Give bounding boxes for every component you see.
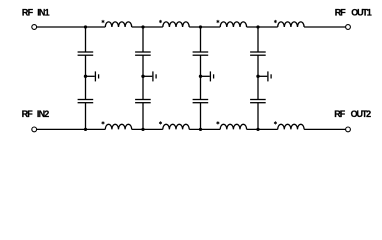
wire C1 to C2 through node M1 xyxy=(85,55,87,99)
wire L1 to node B xyxy=(132,26,163,28)
wire C5 to C6 through node M3 xyxy=(200,55,202,99)
wire node M3 to ground xyxy=(201,75,210,77)
wire C8 to node H xyxy=(257,103,259,130)
ground symbol G3 xyxy=(210,71,213,81)
node D junction dot xyxy=(256,25,259,28)
capacitor C2 xyxy=(78,100,94,103)
wire P1 to node A xyxy=(37,26,106,28)
wire L6 to node G xyxy=(189,128,220,130)
wire L3 to node D xyxy=(247,26,278,28)
phasing dot asterisk L2 xyxy=(159,20,162,23)
capacitor C1 xyxy=(78,52,94,55)
wire L7 to node H xyxy=(247,128,278,130)
port terminal P2 (RF IN2) xyxy=(32,127,37,132)
node M1 junction dot xyxy=(84,75,87,78)
node M4 junction dot xyxy=(256,75,259,78)
wire L8 to port P4 xyxy=(304,128,346,130)
capacitor C8 xyxy=(250,100,266,103)
node C junction dot xyxy=(199,25,202,28)
wire L5 to node F xyxy=(132,128,163,130)
phasing dot asterisk L5 xyxy=(102,121,105,124)
inductor L6 xyxy=(163,124,189,129)
wire node C to capacitor C5 xyxy=(200,27,202,52)
capacitor C4 xyxy=(135,100,151,103)
capacitor C6 xyxy=(193,100,209,103)
node A junction dot xyxy=(84,25,87,28)
wire node M4 to ground xyxy=(258,75,267,77)
node M3 junction dot xyxy=(199,75,202,78)
port terminal P1 (RF IN1) xyxy=(32,25,37,30)
wire C2 to node E xyxy=(85,103,87,130)
wire C3 to C4 through node M2 xyxy=(142,55,144,99)
phasing dot asterisk L6 xyxy=(159,121,162,124)
wire node B to capacitor C3 xyxy=(142,27,144,52)
inductor L8 xyxy=(278,124,304,129)
capacitor C3 xyxy=(135,52,151,55)
svg-text:RFIN1: RFIN1 xyxy=(22,7,50,17)
node F junction dot xyxy=(141,128,144,131)
capacitor C7 xyxy=(250,52,266,55)
wire L2 to node C xyxy=(189,26,220,28)
ground symbol G2 xyxy=(153,71,156,81)
wire P2 to node E xyxy=(37,128,106,130)
node H junction dot xyxy=(256,128,259,131)
wire C6 to node G xyxy=(200,103,202,130)
inductor L7 xyxy=(220,124,246,129)
ground symbol G4 xyxy=(268,71,271,81)
phasing dot asterisk L3 xyxy=(217,20,220,23)
node G junction dot xyxy=(199,128,202,131)
ground symbol G1 xyxy=(95,71,98,81)
phasing dot asterisk L7 xyxy=(217,121,220,124)
svg-text:RFIN2: RFIN2 xyxy=(22,109,50,119)
node M2 junction dot xyxy=(141,75,144,78)
wire node M2 to ground xyxy=(143,75,152,77)
capacitor C5 xyxy=(193,52,209,55)
phasing dot asterisk L4 xyxy=(274,20,277,23)
wire node M1 to ground xyxy=(86,75,95,77)
wire node A to capacitor C1 xyxy=(85,27,87,52)
node B junction dot xyxy=(141,25,144,28)
wire L4 to port P3 xyxy=(304,26,346,28)
inductor L2 xyxy=(163,22,189,27)
wire node D to capacitor C7 xyxy=(257,27,259,52)
inductor L4 xyxy=(278,22,304,27)
port terminal P4 (RF OUT2) xyxy=(346,127,351,132)
svg-text:RFOUT2: RFOUT2 xyxy=(334,109,371,119)
phasing dot asterisk L1 xyxy=(102,20,105,23)
inductor L3 xyxy=(220,22,246,27)
wire C7 to C8 through node M4 xyxy=(257,55,259,99)
node E junction dot xyxy=(84,128,87,131)
phasing dot asterisk L8 xyxy=(274,121,277,124)
wire C4 to node F xyxy=(142,103,144,130)
port terminal P3 (RF OUT1) xyxy=(346,25,351,30)
inductor L1 xyxy=(105,22,131,27)
inductor L5 xyxy=(105,124,131,129)
svg-text:RFOUT1: RFOUT1 xyxy=(335,7,372,17)
